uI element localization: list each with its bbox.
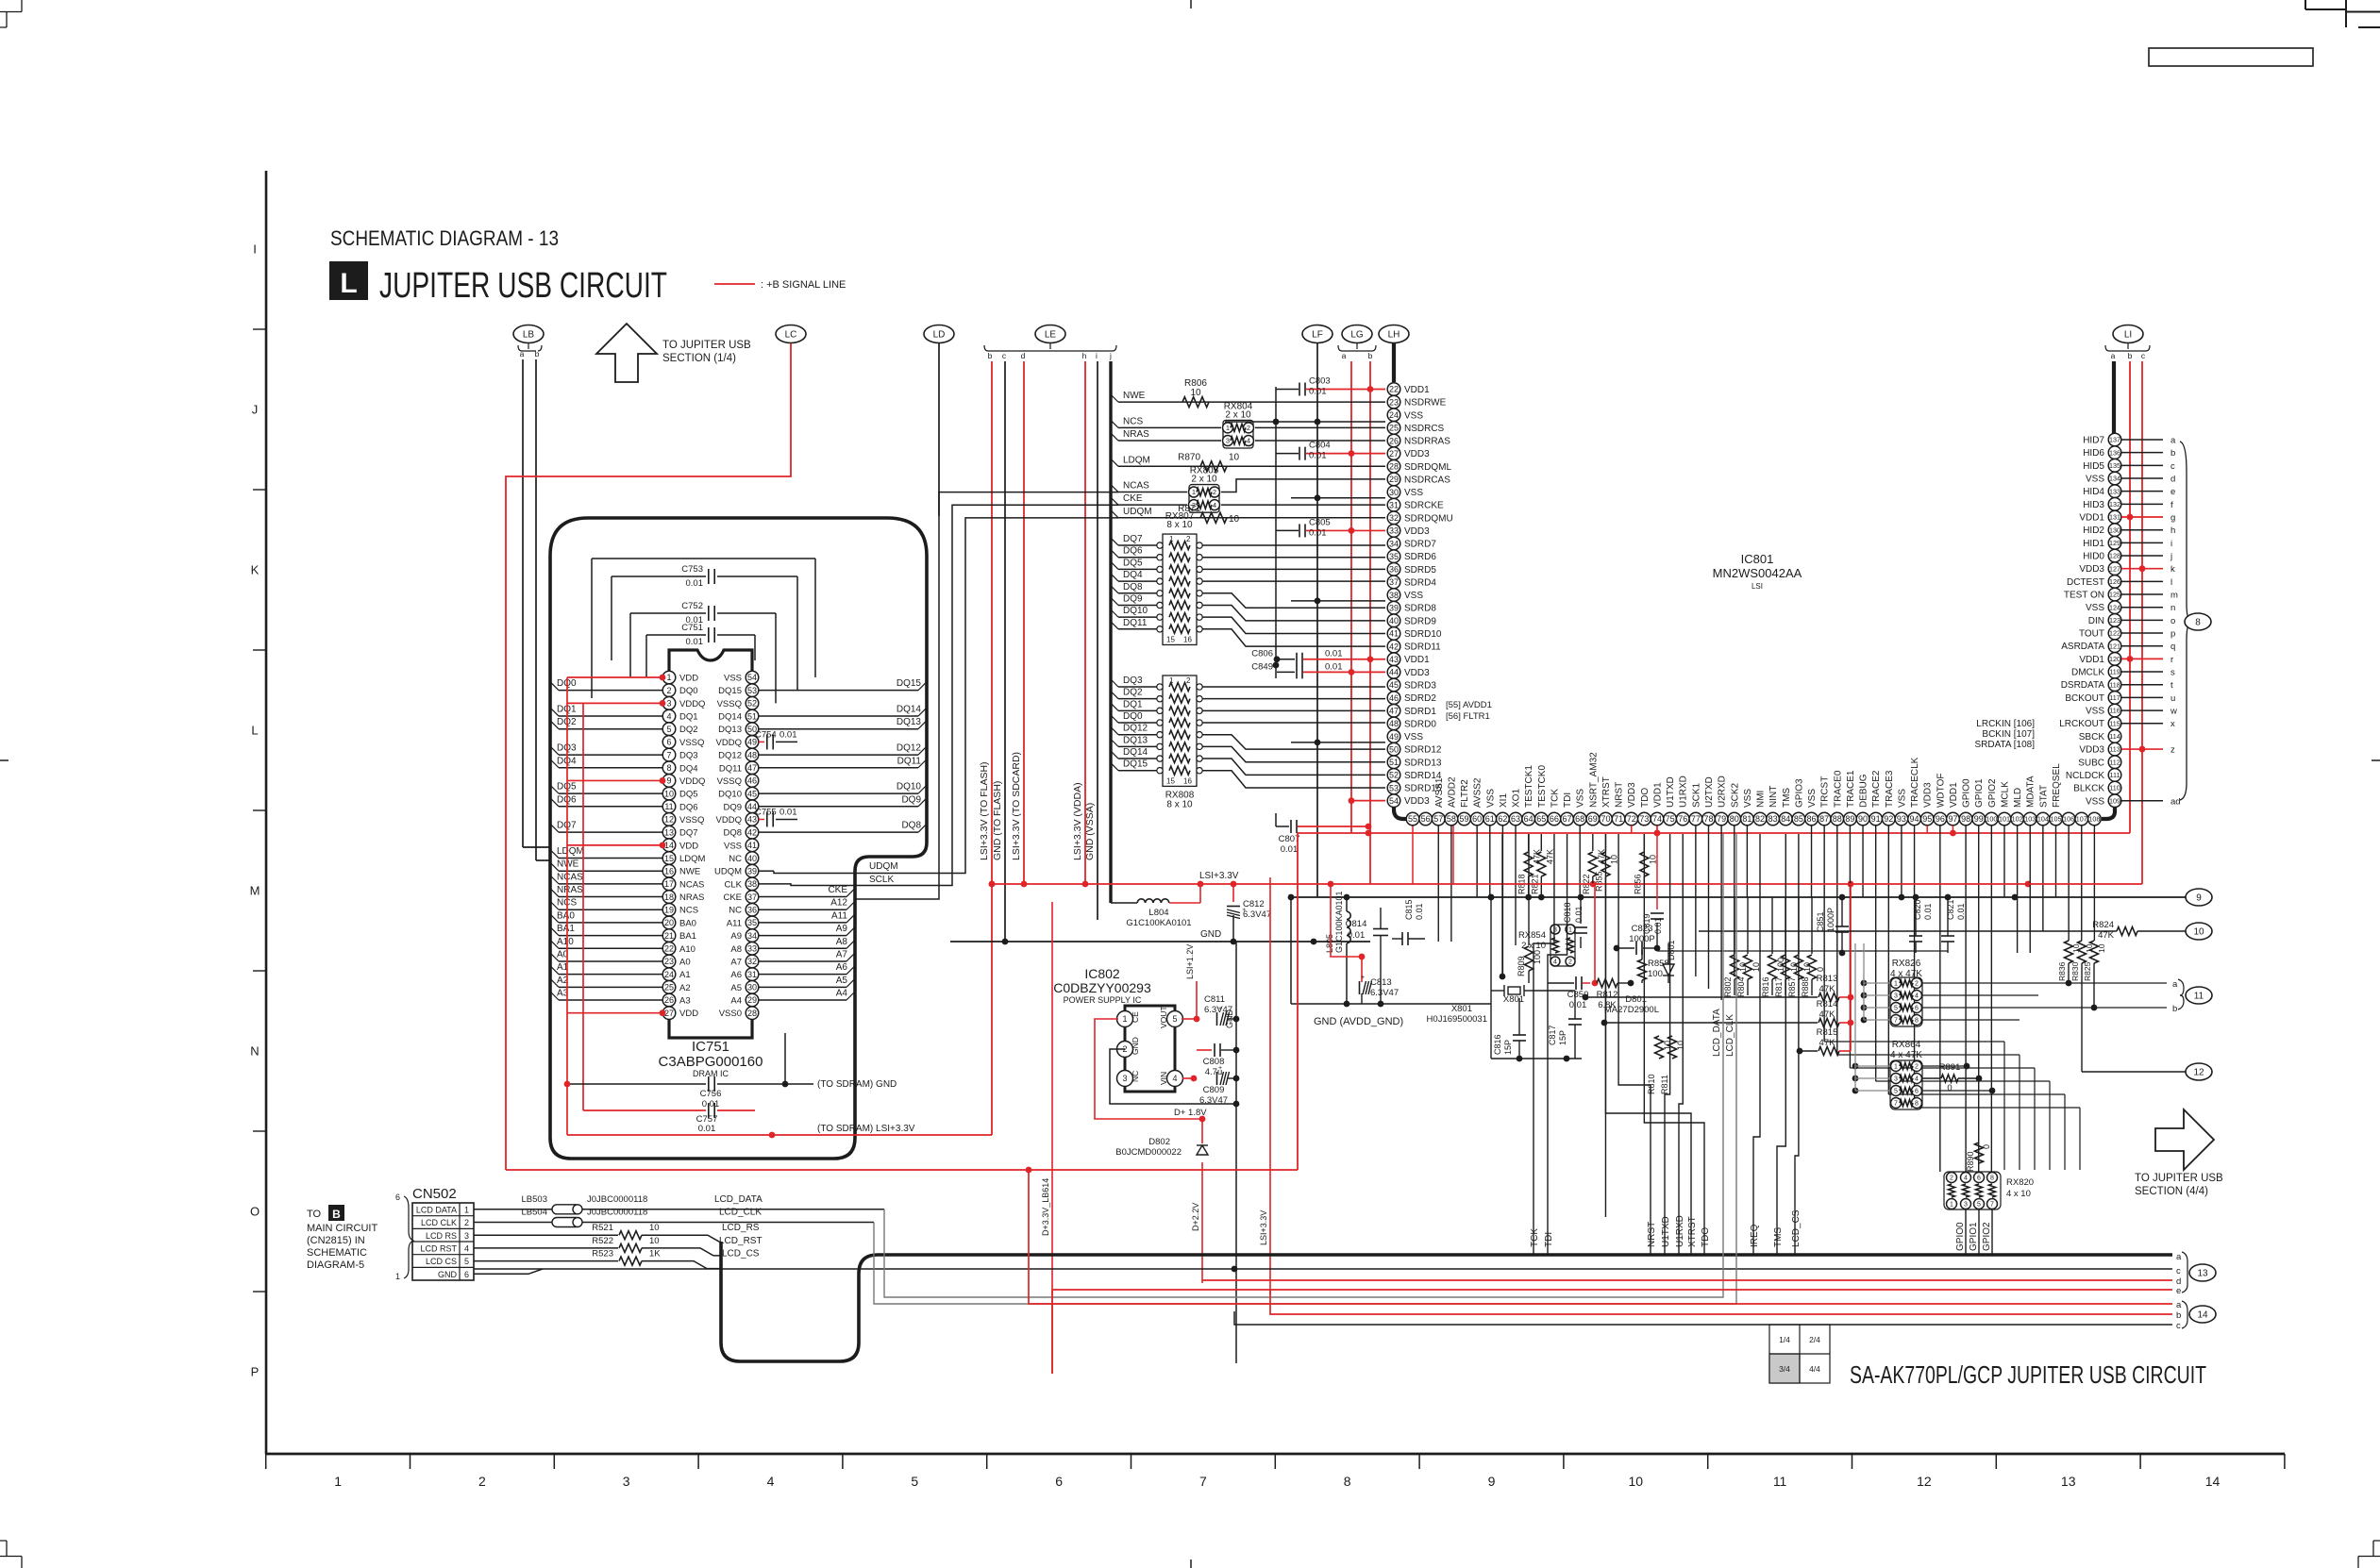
wire red bus e D+3.3V <box>1052 1290 2172 1374</box>
wire LE-c GND (TO FLASH) <box>992 361 1005 942</box>
LSI IC801 pin row 55-108 <box>1406 752 2101 826</box>
svg-text:L: L <box>251 724 258 738</box>
svg-text:TCK: TCK <box>1530 1228 1540 1247</box>
svg-text:CKE: CKE <box>828 885 847 895</box>
svg-text:m: m <box>2170 591 2178 601</box>
svg-text:J: J <box>252 403 259 417</box>
svg-text:NC: NC <box>729 906 742 916</box>
svg-text:98: 98 <box>1961 814 1970 824</box>
svg-text:47: 47 <box>747 763 757 773</box>
svg-text:53: 53 <box>1389 783 1399 792</box>
svg-text:C803: C803 <box>1309 376 1331 387</box>
svg-text:VSS: VSS <box>1485 789 1496 808</box>
svg-text:81: 81 <box>1742 814 1751 824</box>
svg-text:I: I <box>253 242 257 257</box>
svg-text:XTRST: XTRST <box>1687 1216 1698 1247</box>
resistor network RX854 2x10 <box>1518 925 1575 966</box>
svg-text:117: 117 <box>2109 693 2120 702</box>
svg-text:SDRCKE: SDRCKE <box>1404 501 1444 511</box>
capacitor C821 0.01 <box>1941 897 1966 953</box>
svg-text:VDDQ: VDDQ <box>679 699 705 709</box>
svg-text:LCD_CS: LCD_CS <box>1791 1209 1802 1247</box>
svg-text:132: 132 <box>2109 500 2120 509</box>
svg-text:VSSQ: VSSQ <box>717 699 742 709</box>
resistor R822 47K <box>1582 834 1606 894</box>
wire LE-h LSI+3.3V (VDDA) <box>1072 361 1085 884</box>
svg-text:DQ10: DQ10 <box>897 782 922 792</box>
svg-text:AVDD2: AVDD2 <box>1447 776 1457 808</box>
wire pin109 stub <box>2121 800 2163 802</box>
svg-text:59: 59 <box>1460 814 1469 824</box>
svg-text:VSS: VSS <box>2086 796 2104 807</box>
wire LH trunk lower <box>1394 808 1406 819</box>
svg-text:25: 25 <box>1389 424 1399 433</box>
svg-text:j: j <box>2170 552 2172 562</box>
svg-text:2: 2 <box>1568 959 1572 966</box>
svg-text:LRCKIN [106]: LRCKIN [106] <box>1976 719 2035 729</box>
wire LG-a <box>1350 361 1352 833</box>
svg-text:D+2.2V: D+2.2V <box>1191 1203 1200 1231</box>
svg-text:3/4: 3/4 <box>1779 1364 1790 1374</box>
svg-text:24: 24 <box>1389 410 1399 420</box>
svg-text:DQ6: DQ6 <box>679 802 698 812</box>
wire cap gnd stubs <box>1225 387 1385 745</box>
svg-text:L: L <box>340 268 357 299</box>
svg-text:LI: LI <box>2124 330 2132 341</box>
svg-text:a: a <box>2170 436 2176 446</box>
resistor R870 10 <box>1178 452 1239 472</box>
svg-text:54: 54 <box>747 673 757 682</box>
svg-text:4: 4 <box>1247 437 1250 445</box>
node LD <box>924 325 954 343</box>
svg-text:92: 92 <box>1884 814 1893 824</box>
svg-text:2: 2 <box>666 686 671 695</box>
wire LSI+1.2V <box>1182 944 1199 1023</box>
svg-text:NC: NC <box>729 854 742 864</box>
svg-text:10: 10 <box>1648 855 1657 864</box>
wire DQ11 via RX807 <box>1111 618 1385 646</box>
wire DQ0 via RX808 <box>1111 711 1385 727</box>
svg-text:CLK: CLK <box>725 879 743 890</box>
capacitor C808 4.7u <box>1197 1043 1239 1077</box>
svg-text:U2TXD: U2TXD <box>1704 776 1715 808</box>
svg-text:53: 53 <box>747 686 757 695</box>
ferrite bead LB503 J0JBC0000118 <box>474 1194 884 1214</box>
node flag 10 <box>2186 923 2212 940</box>
svg-text:P: P <box>251 1365 260 1379</box>
svg-text:r: r <box>2170 655 2173 665</box>
svg-text:69: 69 <box>1588 814 1598 824</box>
svg-text:R522: R522 <box>592 1236 613 1246</box>
svg-text:40: 40 <box>1389 616 1399 626</box>
text GND (AVDD_GND) <box>1288 894 1491 1027</box>
dram IC751 C3ABPG000160 <box>659 650 763 1078</box>
svg-text:131: 131 <box>2109 513 2120 522</box>
resistor R891 0 <box>1922 1062 1982 1093</box>
capacitor C803 0.01 <box>1276 376 1385 397</box>
svg-text:SBCK: SBCK <box>2079 732 2105 742</box>
node LB <box>513 325 544 359</box>
power supply IC802 C0DBZYY00293 <box>1053 966 1182 1092</box>
svg-text:NSDRCS: NSDRCS <box>1404 424 1445 434</box>
svg-text:VDD3: VDD3 <box>1923 782 1934 808</box>
svg-text:GPIO1: GPIO1 <box>1974 778 1985 808</box>
wire crystal net <box>1488 834 1582 1061</box>
svg-text:10: 10 <box>1609 855 1618 864</box>
svg-text:b: b <box>2128 351 2133 360</box>
svg-text:11: 11 <box>2194 992 2204 1002</box>
svg-text:SDRD3: SDRD3 <box>1404 680 1436 691</box>
svg-text:LSI+3.3V (VDDA): LSI+3.3V (VDDA) <box>1072 782 1083 860</box>
svg-text:114: 114 <box>2109 732 2120 741</box>
svg-text:8: 8 <box>1915 1101 1919 1108</box>
wire (TO SDRAM) LSI+3.3V <box>567 1124 992 1138</box>
capacitor C757 0.01 <box>583 1103 755 1134</box>
svg-text:R809: R809 <box>1517 956 1526 976</box>
svg-text:AVSS2: AVSS2 <box>1473 777 1483 808</box>
svg-text:44: 44 <box>1389 668 1399 677</box>
svg-text:VDD1: VDD1 <box>1652 782 1663 808</box>
svg-text:R811: R811 <box>1660 1075 1669 1094</box>
resistor network RX807 8x10 <box>1163 511 1197 644</box>
svg-text:85: 85 <box>1794 814 1803 824</box>
svg-text:HID5: HID5 <box>2083 461 2104 472</box>
svg-text:A3: A3 <box>679 996 691 1007</box>
wire NCAS to IC751 pin 17 <box>551 872 662 884</box>
capacitor C850 0.01 <box>1548 976 1588 1010</box>
svg-text:A9: A9 <box>730 931 742 942</box>
wire LSI+3.3V rail <box>989 871 2142 887</box>
svg-text:10: 10 <box>664 789 674 798</box>
svg-text:68: 68 <box>1575 814 1584 824</box>
svg-text:11: 11 <box>664 802 673 811</box>
wire A11 from IC751 pin 35 <box>759 910 854 923</box>
svg-text:4 x 10: 4 x 10 <box>2006 1189 2031 1199</box>
svg-text:120: 120 <box>2109 655 2120 663</box>
svg-text:VDD3: VDD3 <box>1627 782 1637 808</box>
svg-text:2: 2 <box>1186 535 1191 543</box>
svg-text:7: 7 <box>1894 1101 1898 1108</box>
svg-text:GPIO0: GPIO0 <box>1962 778 1972 808</box>
wire gray trace feed <box>1863 943 1865 1020</box>
svg-text:0.01: 0.01 <box>1325 649 1343 659</box>
svg-text:6: 6 <box>1915 1089 1919 1095</box>
svg-text:17: 17 <box>664 879 674 889</box>
svg-text:c: c <box>2170 461 2175 472</box>
svg-text:VSS0: VSS0 <box>719 1009 742 1019</box>
capacitor C806 0.01 <box>1251 649 1385 666</box>
svg-text:HID4: HID4 <box>2083 487 2104 497</box>
wire red bus g LSI+3.3V <box>1270 1290 2172 1314</box>
svg-text:VSSQ: VSSQ <box>717 776 742 787</box>
svg-text:128: 128 <box>2109 552 2120 560</box>
svg-text:UDQM: UDQM <box>1123 507 1152 517</box>
resistor R836 10 <box>2057 941 2081 986</box>
svg-text:15: 15 <box>1166 635 1175 643</box>
svg-text:B0JCMD000022: B0JCMD000022 <box>1115 1147 1182 1158</box>
svg-text:TO JUPITER USB: TO JUPITER USB <box>662 340 751 351</box>
svg-text:55: 55 <box>1408 814 1417 824</box>
wire A5 from IC751 pin 30 <box>759 976 854 988</box>
svg-text:LB: LB <box>523 330 535 341</box>
svg-text:VOUT: VOUT <box>1159 1006 1168 1028</box>
svg-text:15P: 15P <box>1558 1030 1567 1045</box>
svg-text:D+3.3V_LB614: D+3.3V_LB614 <box>1041 1178 1050 1236</box>
wire CKE <box>1111 493 1385 505</box>
svg-text:DQ5: DQ5 <box>1123 558 1143 568</box>
wire DQ9 from IC751 pin 44 <box>759 794 926 807</box>
wire LSI+3.3V drop <box>1259 877 1270 1294</box>
svg-text:30: 30 <box>1389 488 1399 497</box>
svg-text:48: 48 <box>747 750 757 759</box>
svg-text:MAIN CIRCUIT: MAIN CIRCUIT <box>307 1223 377 1234</box>
svg-text:J0JBC0000118: J0JBC0000118 <box>587 1208 647 1218</box>
svg-text:94: 94 <box>1910 814 1919 824</box>
svg-text:R891: R891 <box>1939 1062 1961 1073</box>
svg-text:4: 4 <box>1553 959 1557 966</box>
node flag 8 brace <box>2180 442 2211 800</box>
text TO MAIN CIRCUIT <box>307 1205 377 1271</box>
svg-text:34: 34 <box>1389 539 1399 548</box>
svg-text:0.01: 0.01 <box>779 729 797 740</box>
wire red bus d D+2.2V <box>1202 1279 2172 1281</box>
svg-text:136: 136 <box>2109 448 2120 457</box>
svg-text:DQ8: DQ8 <box>723 828 742 839</box>
svg-text:58: 58 <box>1447 814 1456 824</box>
wire trunk to pin109 <box>2102 807 2115 819</box>
resistor R522 10 <box>474 1236 763 1256</box>
svg-text:LCD_CS: LCD_CS <box>722 1249 760 1259</box>
wire +B riser <box>1297 833 1299 1170</box>
svg-text:126: 126 <box>2109 577 2120 586</box>
svg-text:d: d <box>2170 475 2175 485</box>
svg-text:HID0: HID0 <box>2083 552 2104 562</box>
wire AVDD1 pin55 drop <box>1413 826 1453 884</box>
wire D+2.2V diode branch <box>1191 1119 1202 1283</box>
svg-text:103: 103 <box>2024 815 2036 824</box>
svg-text:34: 34 <box>747 931 757 941</box>
svg-text:TRACE0: TRACE0 <box>1833 770 1843 808</box>
svg-text:SCK1: SCK1 <box>1691 782 1701 808</box>
svg-text:31: 31 <box>747 970 757 979</box>
svg-text:4: 4 <box>464 1244 469 1254</box>
wire gnd rail power <box>950 929 1370 944</box>
capacitor C818 0.01 <box>1563 897 1587 948</box>
svg-text:36: 36 <box>1389 565 1399 575</box>
resistor R802 10 <box>1723 897 1748 997</box>
svg-text:9: 9 <box>2196 893 2202 904</box>
wire CN502 GND row <box>474 1269 543 1274</box>
LSI IC801 pin column 137-109 <box>2059 433 2180 807</box>
wire DQ11 from IC751 pin 47 <box>759 756 926 768</box>
wire LE-j <box>1109 361 1112 903</box>
svg-text:b: b <box>2176 1310 2181 1321</box>
svg-text:A8: A8 <box>730 944 742 955</box>
wire DQ4 to IC751 pin 8 <box>551 756 662 768</box>
svg-text:k: k <box>2170 564 2175 575</box>
svg-text:43: 43 <box>1389 655 1399 664</box>
svg-text:0.01: 0.01 <box>1415 903 1424 920</box>
svg-text:DQ1: DQ1 <box>1123 699 1143 709</box>
wire DQ15 via RX808 <box>1111 759 1385 788</box>
svg-text:67: 67 <box>1563 814 1572 824</box>
svg-text:4: 4 <box>666 711 671 721</box>
wire BA0 to IC751 pin 20 <box>551 910 662 923</box>
svg-text:37: 37 <box>747 892 757 902</box>
svg-text:9: 9 <box>666 776 671 786</box>
svg-text:79: 79 <box>1717 814 1726 824</box>
svg-text:SDRD2: SDRD2 <box>1404 693 1436 704</box>
arrow to jupiter usb section 1/4 <box>596 324 751 382</box>
resistor R811 10 <box>1660 1036 1685 1094</box>
svg-text:88: 88 <box>1833 814 1842 824</box>
svg-text:VDD3: VDD3 <box>1404 526 1430 537</box>
svg-text:2 x 10: 2 x 10 <box>1191 475 1217 485</box>
svg-text:GPIO1: GPIO1 <box>1969 1222 1979 1251</box>
svg-text:DEBUG: DEBUG <box>1859 774 1869 808</box>
svg-text:73: 73 <box>1639 814 1649 824</box>
svg-text:LDQM: LDQM <box>679 854 706 864</box>
svg-text:A4: A4 <box>836 989 848 999</box>
svg-text:D+ 1.8V: D+ 1.8V <box>1174 1108 1207 1118</box>
svg-text:DQ10: DQ10 <box>718 790 742 800</box>
wire DQ3 to IC751 pin 7 <box>551 743 662 756</box>
wire red ring feed <box>0 0 1 1</box>
svg-text:DQ3: DQ3 <box>1123 676 1143 686</box>
svg-text:0.01: 0.01 <box>1309 387 1327 397</box>
wire LH trunk <box>1392 343 1396 382</box>
svg-text:VDDQ: VDDQ <box>716 738 742 748</box>
svg-text:54: 54 <box>1389 796 1399 806</box>
wire gnd bus <box>1291 894 2186 901</box>
svg-text:45: 45 <box>1389 680 1399 690</box>
svg-text:GND: GND <box>1131 1037 1140 1055</box>
svg-text:22: 22 <box>1389 385 1399 394</box>
svg-text:46: 46 <box>747 776 757 786</box>
svg-text:0.01: 0.01 <box>1956 903 1966 920</box>
svg-text:1: 1 <box>1568 927 1572 934</box>
capacitor C812 6.3V47 <box>1227 884 1271 942</box>
svg-text:45: 45 <box>747 789 757 798</box>
svg-text:p: p <box>2170 629 2175 640</box>
svg-text:b: b <box>1368 351 1373 360</box>
node LF <box>1302 325 1332 343</box>
svg-text:CN502: CN502 <box>412 1186 457 1202</box>
wire LE-b LSI+3.3V (TO FLASH) <box>979 361 995 1135</box>
wire BA1 to IC751 pin 21 <box>551 924 662 936</box>
capacitor C755 0.01 <box>755 807 797 826</box>
svg-text:115: 115 <box>2109 719 2120 727</box>
svg-text:f: f <box>2170 500 2173 510</box>
wire CN502 brace <box>395 1193 413 1281</box>
svg-text:JUPITER USB CIRCUIT: JUPITER USB CIRCUIT <box>379 266 667 306</box>
svg-text:x: x <box>2170 719 2175 729</box>
svg-text:e: e <box>2170 487 2175 497</box>
wire red bus f <box>1029 1170 2172 1304</box>
svg-text:10: 10 <box>2193 927 2204 938</box>
svg-text:SDRD7: SDRD7 <box>1404 540 1436 550</box>
svg-text:IC751: IC751 <box>692 1039 729 1055</box>
svg-text:DQ9: DQ9 <box>723 802 742 812</box>
svg-text:2 x 10: 2 x 10 <box>1225 409 1251 420</box>
svg-text:LE: LE <box>1045 330 1057 341</box>
svg-text:3: 3 <box>1894 1076 1898 1083</box>
svg-text:AVSS1: AVSS1 <box>1434 777 1445 808</box>
svg-text:10: 10 <box>1190 388 1201 398</box>
svg-text:J0JBC0000118: J0JBC0000118 <box>587 1194 647 1205</box>
svg-text:ASRDATA: ASRDATA <box>2061 642 2104 652</box>
wire LF <box>1316 343 1318 897</box>
svg-text:101: 101 <box>1999 815 2010 824</box>
svg-text:D801: D801 <box>1667 940 1676 960</box>
svg-text:4/4: 4/4 <box>1809 1364 1820 1374</box>
svg-text:47K: 47K <box>1545 849 1554 864</box>
svg-text:LCD_DATA: LCD_DATA <box>1712 1009 1722 1057</box>
svg-text:19: 19 <box>664 905 674 914</box>
svg-text:111: 111 <box>2110 771 2120 779</box>
svg-text:21: 21 <box>664 931 674 941</box>
svg-text:39: 39 <box>1389 603 1399 612</box>
svg-text:123: 123 <box>2109 616 2120 625</box>
svg-text:R804: R804 <box>1736 976 1746 997</box>
svg-text:DQ15: DQ15 <box>718 686 742 696</box>
svg-text:10: 10 <box>1229 452 1240 462</box>
svg-text:C805: C805 <box>1309 517 1331 527</box>
capacitor C751 0.01 <box>646 623 755 647</box>
svg-text:C816: C816 <box>1493 1034 1502 1055</box>
wire UDQM row R871 <box>1111 507 1385 518</box>
svg-text:TRACE1: TRACE1 <box>1846 770 1856 808</box>
svg-text:[56] FLTR1: [56] FLTR1 <box>1446 711 1490 722</box>
svg-text:12: 12 <box>2193 1068 2204 1078</box>
wire DQ7 via RX807 <box>1111 534 1385 550</box>
svg-text:C3ABPG000160: C3ABPG000160 <box>659 1054 763 1070</box>
node LE <box>984 325 1116 361</box>
svg-text:1: 1 <box>464 1206 469 1215</box>
wire DQ14 via RX808 <box>1111 747 1385 775</box>
svg-text:VSS: VSS <box>1404 591 1423 601</box>
svg-text:47K: 47K <box>1819 1009 1836 1020</box>
svg-text:A4: A4 <box>730 996 742 1007</box>
page grid 1/4 2/4 3/4 4/4 <box>1769 1325 1830 1383</box>
svg-text:75: 75 <box>1666 814 1675 824</box>
capacitor C815 0.01 <box>1392 899 1425 945</box>
svg-text:28: 28 <box>1389 462 1399 472</box>
resistor network RX804 2x10 <box>1223 401 1254 448</box>
svg-text:STAT: STAT <box>2038 785 2049 808</box>
wire LB-b <box>536 359 550 860</box>
node LH <box>1379 325 1409 343</box>
svg-text:u: u <box>2170 693 2175 704</box>
svg-text:NINT: NINT <box>1768 786 1779 808</box>
svg-text:4: 4 <box>767 1474 775 1489</box>
svg-text:78: 78 <box>1703 814 1713 824</box>
svg-text:DQ14: DQ14 <box>718 712 742 723</box>
svg-text:SDRD13: SDRD13 <box>1404 758 1442 768</box>
capacitor C849 0.01 <box>1251 661 1385 678</box>
svg-text:C849: C849 <box>1251 661 1273 672</box>
svg-text:LSI+3.3V: LSI+3.3V <box>1199 871 1239 881</box>
resistor R813 47K <box>1583 974 1854 1002</box>
wire (TO SDRAM) GND <box>817 1079 897 1090</box>
svg-text:119: 119 <box>2109 668 2120 676</box>
svg-text:LCD_CLK: LCD_CLK <box>1725 1014 1735 1057</box>
svg-text:L804: L804 <box>1148 908 1168 918</box>
svg-text:A12: A12 <box>830 898 847 909</box>
wire DQ2 to IC751 pin 5 <box>551 717 662 729</box>
svg-text:TDO: TDO <box>1701 1227 1711 1247</box>
node flag 9 <box>2186 889 2212 906</box>
